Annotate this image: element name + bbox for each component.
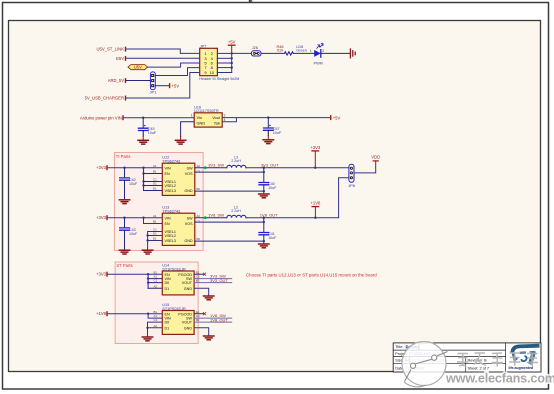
U15 SW net 1V8_SW bbox=[194, 313, 232, 318]
top edge artifact bbox=[249, 0, 251, 2]
ground under U13 VSEL bus bbox=[142, 250, 152, 254]
wire JP6 pin3 to 1V8 rail bbox=[339, 178, 349, 218]
wire +3V3 to U12 VIN bbox=[108, 167, 163, 169]
power flag +5V (at JP1) bbox=[169, 83, 179, 88]
regulator U16 LD1117S50TR bbox=[191, 105, 226, 127]
wire +1V8 to U15 EN bbox=[108, 313, 163, 315]
ground under U16 GND bbox=[175, 140, 185, 144]
svg-text:VIN: VIN bbox=[165, 166, 171, 170]
svg-text:VIN: VIN bbox=[165, 216, 171, 220]
wire ARD_5V to JP1 pin2 bbox=[126, 80, 150, 82]
svg-text:B2: B2 bbox=[197, 187, 201, 191]
junction dots on +5V bus bbox=[231, 52, 233, 69]
title block frame bbox=[393, 343, 541, 372]
title block row lines bbox=[393, 343, 505, 372]
svg-text:C2: C2 bbox=[197, 169, 201, 173]
svg-text:C2: C2 bbox=[197, 219, 201, 223]
ground under C57 bbox=[263, 140, 273, 144]
svg-text:1V8_OUT: 1V8_OUT bbox=[210, 317, 228, 322]
wires JP7 right pins to +5V bus bbox=[217, 53, 251, 72]
svg-text:5V_USB_CHARGER: 5V_USB_CHARGER bbox=[85, 96, 124, 101]
svg-text:+5V: +5V bbox=[333, 115, 341, 120]
power flag +1V8 (U15 input) bbox=[96, 311, 108, 316]
svg-text:GND: GND bbox=[197, 120, 206, 125]
capacitor C43 10uF bbox=[120, 218, 138, 250]
watermark clip circle bbox=[402, 342, 448, 387]
svg-text:Choose TI parts U12,U13 or ST: Choose TI parts U12,U13 or ST parts U14,… bbox=[246, 272, 377, 277]
svg-text:A2: A2 bbox=[154, 284, 158, 288]
watermark chinese glyph blocks bbox=[457, 353, 538, 367]
regulator U14 ST1PS01EJR bbox=[162, 264, 194, 295]
U12 SW pin wire bbox=[195, 163, 227, 170]
svg-text:510: 510 bbox=[277, 49, 283, 53]
jumper JP6 bbox=[348, 164, 356, 188]
svg-text:VDD: VDD bbox=[371, 155, 380, 160]
U13 VOS feedback wire bbox=[195, 218, 265, 232]
project row bbox=[395, 352, 445, 356]
regulator U12 TPS62743 bbox=[162, 156, 195, 196]
svg-text:10uF: 10uF bbox=[129, 182, 138, 186]
U14 SW net 3V3_SW bbox=[194, 274, 232, 279]
svg-text:10uF: 10uF bbox=[268, 236, 277, 240]
ST logo bbox=[509, 346, 540, 370]
svg-text:10uF: 10uF bbox=[148, 131, 157, 135]
junction C42 bbox=[123, 167, 125, 169]
ground under U15 D0/D1 bbox=[142, 337, 152, 341]
ground under C45 bbox=[138, 140, 148, 144]
U12 GND pin wire bbox=[195, 187, 265, 192]
svg-text:A1: A1 bbox=[153, 214, 157, 218]
power flag VDD bbox=[371, 155, 380, 161]
wire JP6 pin2 to VDD bbox=[354, 161, 376, 173]
svg-text:10uF: 10uF bbox=[273, 131, 282, 135]
svg-text:D0: D0 bbox=[165, 321, 170, 325]
svg-text:+3V3: +3V3 bbox=[96, 215, 107, 220]
svg-text:SW: SW bbox=[187, 166, 193, 170]
wire LED to ground bbox=[321, 52, 351, 54]
svg-text:10uF: 10uF bbox=[129, 232, 138, 236]
U13 GND pin wire bbox=[195, 237, 265, 242]
TI Parts group box bbox=[114, 153, 203, 251]
svg-text:life.augmented: life.augmented bbox=[509, 366, 534, 370]
ground under C42 bbox=[119, 200, 129, 204]
wire L2 to 1V8 rail riser bbox=[246, 217, 339, 219]
svg-text:Green: Green bbox=[296, 49, 307, 53]
connector JP7 bbox=[199, 44, 239, 81]
wire U16 Vout/Tab to +5V bbox=[222, 118, 330, 122]
power flag +3V3 (rail) bbox=[310, 145, 321, 169]
wire +3V3 to U14 EN bbox=[108, 273, 163, 275]
svg-text:Title:: Title: bbox=[395, 344, 403, 349]
power flag +1V8 (rail) bbox=[310, 201, 321, 219]
power flag +3V3 (U12 input) bbox=[96, 165, 108, 170]
svg-text:E5V: E5V bbox=[116, 56, 124, 61]
wire U5V_ST_LINK to JP7 pin1 bbox=[126, 49, 200, 53]
ST Parts group box bbox=[115, 262, 198, 344]
svg-text:A2: A2 bbox=[154, 324, 158, 328]
svg-text:2: 2 bbox=[322, 49, 324, 53]
U12 VSEL bus bbox=[142, 164, 162, 191]
LED LD8 Green bbox=[296, 44, 324, 66]
svg-text:VOS: VOS bbox=[185, 172, 193, 176]
svg-text:+1V8: +1V8 bbox=[310, 201, 321, 206]
svg-text:+5V: +5V bbox=[228, 40, 236, 45]
port 5V_USB_CHARGER bbox=[85, 96, 127, 101]
wire E5V to JP7 pin3 bbox=[126, 57, 200, 59]
size reference revision row bbox=[395, 359, 487, 363]
U15 EN/VIN tie bbox=[147, 310, 162, 318]
U14 PGOOD stub bbox=[194, 270, 206, 275]
svg-text:VSEL3: VSEL3 bbox=[165, 189, 176, 193]
svg-text:SW: SW bbox=[187, 216, 193, 220]
svg-text:E1: E1 bbox=[196, 270, 200, 274]
svg-text:VSEL2: VSEL2 bbox=[165, 234, 176, 238]
junction node C57 bbox=[267, 116, 269, 118]
wire L3 to JP6 pin1 (3V3 rail) bbox=[246, 167, 349, 169]
svg-text:E1: E1 bbox=[153, 237, 157, 241]
power flag +3V3 (U14 input) bbox=[96, 272, 108, 277]
U15 D0/D1 bus to ground bbox=[146, 318, 162, 336]
U14 VOUT net 3V3_OUT bbox=[194, 278, 232, 283]
jumper JP1 bbox=[149, 72, 157, 95]
wire U5V to JP7 pin5 bbox=[148, 63, 200, 67]
U15 VOUT net 1V8_OUT bbox=[194, 317, 232, 322]
svg-text:C1: C1 bbox=[154, 279, 158, 283]
svg-text:JP1: JP1 bbox=[149, 90, 157, 95]
svg-text:3V3_SW: 3V3_SW bbox=[208, 163, 224, 168]
capacitor C42 10uF bbox=[120, 168, 138, 200]
svg-text:D1: D1 bbox=[153, 182, 157, 186]
svg-text:A1: A1 bbox=[153, 164, 157, 168]
svg-text:GND: GND bbox=[184, 287, 193, 291]
svg-text:E1: E1 bbox=[153, 187, 157, 191]
wire R48 to LED bbox=[294, 52, 315, 54]
svg-text:C1: C1 bbox=[154, 318, 158, 322]
svg-text:+3V3: +3V3 bbox=[310, 145, 321, 150]
capacitor C40 10uF bbox=[259, 182, 277, 194]
wire J26 to R48 bbox=[261, 52, 284, 54]
svg-text:1V8_OUT: 1V8_OUT bbox=[260, 213, 278, 218]
junction 3V3 rail bbox=[263, 167, 265, 169]
U13 EN tie bbox=[142, 214, 162, 224]
date sheet row bbox=[395, 366, 489, 370]
power flag +3V3 (U13 input) bbox=[96, 215, 108, 220]
net tag U5V bbox=[128, 65, 148, 70]
svg-text:+1V8: +1V8 bbox=[96, 311, 107, 316]
svg-text:+3V3: +3V3 bbox=[96, 165, 107, 170]
svg-text:GND: GND bbox=[184, 189, 193, 193]
svg-text:Sheet: 2 of 7: Sheet: 2 of 7 bbox=[468, 366, 490, 370]
svg-text:10uF: 10uF bbox=[268, 186, 277, 190]
svg-text:EN: EN bbox=[165, 273, 170, 277]
svg-text:EN: EN bbox=[165, 222, 170, 226]
regulator U13 TPS62743 bbox=[162, 206, 195, 246]
svg-text:B1: B1 bbox=[153, 170, 157, 174]
svg-text:JP6: JP6 bbox=[348, 183, 356, 188]
U13 VSEL bus to ground bbox=[146, 228, 162, 250]
svg-text:D1: D1 bbox=[165, 287, 170, 291]
svg-text:2.2uH: 2.2uH bbox=[231, 159, 241, 163]
junction node C45 bbox=[142, 117, 144, 119]
U12 VOS feedback wire bbox=[195, 168, 265, 182]
svg-text:D0: D0 bbox=[165, 281, 170, 285]
svg-text:ST Parts: ST Parts bbox=[116, 263, 132, 268]
svg-text:Tab: Tab bbox=[214, 120, 220, 125]
svg-text:VOS: VOS bbox=[185, 222, 193, 226]
svg-text:PWR: PWR bbox=[314, 61, 323, 66]
wire 5V_USB_CHARGER to JP7 pin9 bbox=[126, 73, 200, 99]
svg-text:2: 2 bbox=[224, 114, 226, 118]
svg-text:D1: D1 bbox=[153, 232, 157, 236]
svg-text:EN: EN bbox=[165, 312, 170, 316]
ground under C43 bbox=[119, 250, 129, 254]
U14 GND wire to ground bbox=[194, 288, 209, 295]
power flag +5V (top) bbox=[228, 40, 236, 54]
U14 input tie bus bbox=[147, 270, 162, 288]
ground under C41 bbox=[259, 244, 269, 248]
svg-text:2.2uH: 2.2uH bbox=[231, 209, 241, 213]
junction C43 bbox=[123, 217, 125, 219]
svg-text:U5V_ST_LINK: U5V_ST_LINK bbox=[97, 47, 125, 52]
solder bridge J26 bbox=[251, 46, 261, 56]
svg-text:VOUT: VOUT bbox=[182, 321, 193, 325]
U15 PGOOD stub bbox=[194, 310, 206, 315]
svg-text:Arduino power pin VIN: Arduino power pin VIN bbox=[80, 115, 122, 120]
port E5V bbox=[116, 56, 126, 61]
inductor L2 2.2uH bbox=[227, 205, 246, 217]
capacitor C45 10uF bbox=[138, 118, 157, 140]
ground (rotated, after LED) bbox=[350, 49, 355, 58]
svg-text:B1: B1 bbox=[154, 310, 158, 314]
svg-text:PGOOD: PGOOD bbox=[178, 312, 192, 316]
svg-text:+3V3: +3V3 bbox=[96, 272, 107, 277]
svg-text:D1: D1 bbox=[165, 326, 170, 330]
U13 SW pin wire bbox=[195, 213, 227, 220]
regulator U15 ST1PS01EJR bbox=[162, 303, 194, 334]
resistor R48 510 bbox=[277, 45, 294, 55]
svg-text:1V8_SW: 1V8_SW bbox=[208, 213, 224, 218]
title row bbox=[395, 344, 419, 349]
watermark chinese glyph halo bbox=[457, 353, 538, 367]
svg-text:VSEL2: VSEL2 bbox=[165, 184, 176, 188]
inductor L3 2.2uH bbox=[227, 155, 246, 167]
capacitor C57 10uF bbox=[264, 118, 283, 140]
power flag +5V (U16 output) bbox=[330, 115, 340, 120]
port U5V_ST_LINK bbox=[97, 47, 127, 52]
svg-text:ARD_5V: ARD_5V bbox=[108, 78, 124, 83]
svg-text:B1: B1 bbox=[153, 220, 157, 224]
ground under C40 bbox=[259, 194, 269, 198]
svg-text:PGOOD: PGOOD bbox=[178, 273, 192, 277]
svg-text:1: 1 bbox=[310, 49, 312, 53]
wire +3V3 to U13 VIN bbox=[108, 217, 163, 219]
svg-text:EN: EN bbox=[165, 172, 170, 176]
port Arduino power pin VIN bbox=[80, 115, 124, 120]
svg-text:TI Parts: TI Parts bbox=[116, 154, 131, 159]
svg-text:10: 10 bbox=[210, 70, 215, 75]
svg-text:GND: GND bbox=[184, 239, 193, 243]
svg-text:B2: B2 bbox=[197, 237, 201, 241]
svg-text:U5V: U5V bbox=[134, 65, 142, 70]
ground U14 bbox=[204, 296, 214, 300]
svg-text:1: 1 bbox=[191, 114, 193, 118]
svg-text:J26: J26 bbox=[252, 46, 258, 50]
svg-text:E1: E1 bbox=[196, 310, 200, 314]
svg-text:+5V: +5V bbox=[172, 83, 180, 88]
svg-text:GND: GND bbox=[184, 326, 193, 330]
svg-text:B1: B1 bbox=[154, 270, 158, 274]
wire U16 GND pin to ground bbox=[181, 122, 195, 137]
svg-text:VSEL3: VSEL3 bbox=[165, 239, 176, 243]
svg-text:VOUT: VOUT bbox=[182, 281, 193, 285]
svg-text:Header M Straight 5x2M: Header M Straight 5x2M bbox=[199, 77, 239, 81]
port ARD_5V bbox=[108, 78, 126, 83]
capacitor C41 10uF bbox=[259, 232, 277, 244]
U15 GND wire to ground bbox=[194, 328, 209, 336]
wire JP1 pin1 to JP7 pin7 bbox=[155, 68, 199, 76]
svg-text:www.elecfans.com: www.elecfans.com bbox=[445, 372, 554, 386]
svg-text:3V3_OUT: 3V3_OUT bbox=[210, 278, 228, 283]
wire VIN to U16 bbox=[124, 117, 195, 119]
wire JP1 pin3 to +5V bbox=[155, 85, 169, 87]
junction 1V8 rail bbox=[263, 217, 265, 219]
ground U15 bbox=[204, 336, 214, 340]
